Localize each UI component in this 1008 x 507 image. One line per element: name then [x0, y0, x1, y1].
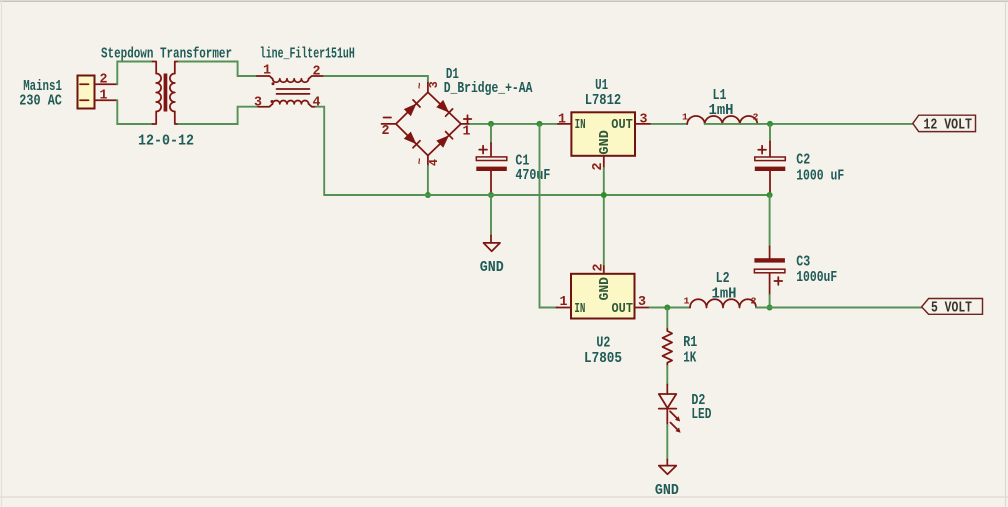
ground symbol (LED): [659, 466, 677, 475]
wire 5V rail: [756, 307, 922, 309]
svg-text:4: 4: [313, 96, 321, 111]
svg-text:~: ~: [415, 82, 427, 89]
wire secondary bottom: [179, 107, 258, 124]
svg-text:R1: R1: [683, 335, 697, 351]
svg-text:2: 2: [592, 264, 607, 272]
svg-text:1: 1: [463, 125, 471, 140]
svg-text:3: 3: [427, 81, 441, 88]
svg-text:GND: GND: [598, 277, 613, 301]
svg-text:LED: LED: [691, 407, 711, 423]
svg-text:L7812: L7812: [585, 93, 622, 109]
bridge rectifier D1: [382, 83, 471, 167]
wire + rail: [470, 123, 558, 125]
resistor R1: [663, 308, 673, 385]
wire U1 gnd down: [603, 168, 605, 266]
svg-text:1: 1: [684, 296, 690, 307]
connector Mains1: [78, 76, 118, 109]
bridge minus label: [384, 117, 392, 119]
junction U1 gnd bus: [601, 192, 607, 198]
svg-text:1mH: 1mH: [712, 287, 737, 303]
bridge plus label: [464, 115, 472, 123]
svg-text:1000 uF: 1000 uF: [796, 168, 844, 184]
wire LED to gnd: [666, 425, 668, 460]
wire secondary top: [179, 62, 258, 77]
svg-text:GND: GND: [480, 260, 504, 276]
svg-text:2: 2: [751, 296, 757, 307]
svg-text:2: 2: [753, 112, 759, 123]
svg-text:1: 1: [560, 295, 568, 310]
junction C2 top: [767, 121, 773, 127]
line filter FL1: [257, 76, 324, 107]
svg-text:2: 2: [313, 65, 321, 80]
svg-text:1000uF: 1000uF: [796, 270, 837, 286]
svg-text:3: 3: [254, 96, 262, 111]
svg-text:GND: GND: [655, 483, 679, 499]
capacitor C3: [754, 247, 785, 308]
junction R1 branch: [664, 305, 670, 311]
wire primary bottom: [117, 100, 152, 124]
capacitor C2: [755, 124, 786, 195]
svg-text:1: 1: [558, 113, 566, 128]
svg-text:U2: U2: [596, 336, 610, 352]
svg-text:1mH: 1mH: [709, 103, 734, 119]
LED D2: [659, 385, 681, 433]
junction C1 bus: [488, 192, 494, 198]
ground symbol (C1): [484, 243, 501, 251]
svg-text:C3: C3: [796, 254, 810, 270]
svg-text:2: 2: [382, 124, 390, 139]
svg-text:L2: L2: [716, 271, 730, 287]
svg-text:~: ~: [415, 158, 427, 165]
wire U2 out to L2: [650, 307, 690, 309]
border frame top: [0, 0, 1008, 2]
svg-text:line_Filter151uH: line_Filter151uH: [260, 47, 355, 63]
junction C2 bus: [767, 192, 773, 198]
wire primary top: [117, 62, 152, 85]
flag 12 VOLT: [913, 115, 976, 133]
svg-text:1: 1: [100, 89, 108, 104]
svg-text:3: 3: [640, 113, 648, 128]
wire filter to bridge: [324, 76, 428, 83]
svg-text:5 VOLT: 5 VOLT: [931, 300, 972, 316]
svg-text:470uF: 470uF: [515, 168, 550, 184]
svg-text:OUT: OUT: [612, 302, 634, 317]
wire filter pin4 down: [316, 107, 324, 195]
svg-text:3: 3: [638, 295, 646, 310]
junction bridge bottom bus: [425, 192, 431, 198]
svg-text:D_Bridge_+-AA: D_Bridge_+-AA: [444, 81, 533, 97]
svg-text:230 AC: 230 AC: [19, 94, 62, 110]
inductor L2: [690, 299, 756, 307]
border frame left: [1, 0, 3, 507]
svg-text:1: 1: [682, 112, 688, 123]
wire 12V rail: [705, 123, 913, 125]
svg-text:IN: IN: [575, 118, 586, 133]
svg-text:OUT: OUT: [611, 118, 633, 133]
svg-text:GND: GND: [598, 130, 613, 155]
regulator U1: [558, 112, 651, 168]
svg-text:1: 1: [263, 64, 271, 79]
svg-text:L1: L1: [713, 88, 727, 104]
transformer T1: [153, 62, 179, 125]
wire bridge bottom to bus: [427, 166, 429, 195]
flag 5 VOLT: [922, 299, 983, 317]
regulator U2: [557, 266, 650, 319]
border frame bottom: [0, 496, 1008, 498]
junction C3 bottom / 5V rail: [767, 305, 773, 311]
wire bus to C3: [769, 195, 771, 247]
svg-text:1K: 1K: [683, 351, 696, 367]
wire U2 feed vertical: [540, 124, 558, 308]
svg-text:IN: IN: [574, 302, 585, 317]
capacitor C1: [476, 124, 507, 195]
svg-text:2: 2: [100, 73, 108, 88]
svg-text:L7805: L7805: [584, 351, 622, 367]
ground bus: [324, 194, 769, 196]
svg-text:Stepdown Transformer: Stepdown Transformer: [101, 47, 232, 63]
wire C1 to gnd: [490, 195, 492, 236]
junction C1 top: [488, 121, 494, 127]
svg-text:U1: U1: [595, 78, 608, 94]
border frame right: [1005, 0, 1007, 507]
svg-text:C2: C2: [796, 153, 810, 169]
svg-text:12-0-12: 12-0-12: [138, 134, 194, 150]
svg-text:12 VOLT: 12 VOLT: [923, 117, 972, 133]
inductor L1: [651, 116, 757, 124]
svg-text:4: 4: [427, 159, 441, 166]
junction U2 feed: [537, 121, 543, 127]
